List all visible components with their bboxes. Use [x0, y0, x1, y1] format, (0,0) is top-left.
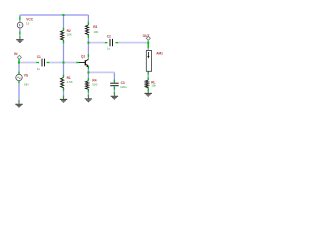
svg-text:1u: 1u	[107, 47, 111, 51]
svg-text:10k: 10k	[151, 84, 156, 88]
svg-text:500: 500	[92, 83, 97, 87]
svg-text:15: 15	[26, 22, 30, 26]
svg-text:Q1: Q1	[81, 55, 85, 59]
svg-text:IN: IN	[14, 52, 18, 56]
svg-text:1.5K: 1.5K	[67, 80, 73, 84]
svg-text:VS: VS	[24, 74, 28, 78]
svg-text:R3: R3	[93, 25, 97, 29]
svg-text:OUT: OUT	[143, 34, 150, 38]
svg-text:10K: 10K	[67, 33, 72, 37]
svg-text:C2: C2	[107, 35, 111, 39]
svg-text:SIN: SIN	[24, 83, 29, 87]
svg-text:10K: 10K	[93, 30, 98, 34]
svg-text:220u: 220u	[120, 85, 127, 89]
svg-text:C1: C1	[37, 55, 41, 59]
svg-text:AM1: AM1	[156, 52, 163, 56]
svg-text:1u: 1u	[37, 67, 41, 71]
